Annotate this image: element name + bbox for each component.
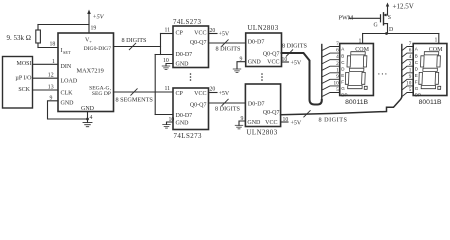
svg-text:A: A — [415, 47, 418, 52]
svg-text:Q0-Q7: Q0-Q7 — [190, 103, 207, 109]
svg-text:80011B: 80011B — [419, 99, 442, 106]
svg-text:DP: DP — [341, 93, 347, 98]
ellipsis between latches — [190, 73, 192, 81]
svg-text:8 DIGITS: 8 DIGITS — [282, 42, 307, 49]
svg-text:C: C — [415, 60, 419, 65]
svg-text:G: G — [341, 86, 345, 91]
svg-text:GND: GND — [176, 121, 190, 127]
bus 8 SEGMENTS from MAX7219 — [114, 91, 174, 93]
svg-text:1: 1 — [409, 67, 412, 73]
svg-text:CP: CP — [176, 91, 184, 97]
wire VCC top latch pin 20 +5V — [209, 33, 218, 35]
wire D0-D7 bottom latch — [155, 114, 173, 116]
pin 2 segment D left — [322, 66, 340, 70]
svg-text:DP: DP — [415, 93, 421, 98]
ground symbol bottom ULN — [235, 125, 243, 129]
svg-text:G: G — [415, 86, 419, 91]
ground symbol under MAX7219 — [83, 123, 92, 127]
svg-text:Q0-Q7: Q0-Q7 — [190, 40, 207, 46]
wire VCC bottom ULN pin 10 +5V — [281, 121, 288, 123]
bus top latch Q to ULN 8 DIGITS — [209, 42, 246, 44]
wire GND top ULN pin 9 — [237, 62, 246, 69]
wire drain — [384, 23, 388, 25]
pin 5 segment DP right — [402, 92, 413, 96]
svg-text:9: 9 — [241, 116, 244, 122]
COM rail wire — [363, 33, 439, 35]
wire VCC top ULN pin 10 +5V — [282, 61, 289, 63]
svg-text:CP: CP — [176, 31, 184, 37]
svg-text:20: 20 — [210, 87, 216, 93]
svg-text:9. 53k Ω: 9. 53k Ω — [7, 34, 31, 42]
svg-text:CLK: CLK — [61, 91, 74, 97]
power +5V rail top — [88, 14, 90, 33]
svg-text:9: 9 — [409, 74, 412, 80]
svg-text:B: B — [415, 53, 418, 58]
svg-text:VCC: VCC — [194, 31, 206, 37]
pin 10 segment G right — [402, 86, 413, 90]
svg-text:+5V: +5V — [291, 61, 302, 67]
IC U5 ULN2803 bottom — [245, 84, 280, 127]
display left 80011B — [340, 44, 374, 96]
svg-text:80011B: 80011B — [345, 99, 368, 106]
IC U1 MAX7219 — [58, 33, 114, 112]
segment tap bus right — [401, 45, 403, 98]
svg-text:19: 19 — [91, 26, 97, 32]
svg-text:7: 7 — [409, 41, 412, 47]
svg-text:74LS273: 74LS273 — [174, 133, 203, 139]
svg-text:D0-D7: D0-D7 — [248, 102, 265, 108]
segment tap bus left — [321, 45, 323, 101]
svg-text:D0-D7: D0-D7 — [176, 52, 193, 58]
svg-text:+5V: +5V — [219, 91, 230, 97]
svg-text:Q0-Q7: Q0-Q7 — [263, 110, 280, 116]
svg-text:SCK: SCK — [18, 87, 30, 93]
svg-text:. . .: . . . — [378, 69, 387, 77]
pin 7 segment A left — [322, 47, 340, 51]
svg-text:GND: GND — [247, 120, 261, 126]
svg-text:2: 2 — [409, 61, 412, 67]
svg-text:+5V: +5V — [93, 14, 105, 21]
svg-text:5: 5 — [409, 87, 412, 93]
ground symbol top ULN — [233, 69, 241, 73]
svg-text:VCC: VCC — [194, 91, 206, 97]
svg-text:VCC: VCC — [267, 60, 279, 66]
svg-text:20: 20 — [210, 28, 216, 34]
svg-text:VCC: VCC — [265, 120, 277, 126]
pin 6 segment B left — [322, 53, 340, 57]
svg-text:2: 2 — [336, 61, 339, 67]
resistor R1 9.53k — [37, 25, 39, 31]
svg-text:8 SEGMENTS: 8 SEGMENTS — [116, 97, 154, 104]
pin 6 segment B right — [402, 53, 413, 57]
svg-text:13: 13 — [48, 85, 54, 91]
svg-text:SET: SET — [63, 50, 71, 55]
ellipsis between ULNs — [261, 73, 263, 81]
svg-text:Q0-Q7: Q0-Q7 — [263, 52, 280, 58]
svg-text:9: 9 — [240, 57, 243, 63]
svg-text:+5V: +5V — [219, 32, 230, 38]
svg-text:DIG0-DIG7: DIG0-DIG7 — [84, 46, 112, 52]
bus bottom latch Q to ULN 8 SEGMENTS — [209, 102, 246, 104]
bus 8 DIGITS from MAX7219 — [114, 46, 161, 48]
wire vertical digit to CP — [160, 34, 162, 55]
microcontroller uP I/O box — [3, 57, 33, 109]
bus top ULN Q out 8 DIGITS — [282, 53, 322, 105]
svg-text:+5V: +5V — [291, 121, 302, 127]
svg-text:9: 9 — [50, 95, 53, 101]
svg-text:1: 1 — [336, 67, 339, 73]
svg-text:+: + — [89, 39, 92, 44]
svg-text:MAX7219: MAX7219 — [77, 68, 104, 75]
bus bottom ULN Q out 8 DIGITS to displays — [281, 97, 402, 115]
pin 1 segment E right — [402, 73, 413, 77]
wire +5V to resistor — [38, 24, 89, 26]
svg-text:ULN2803: ULN2803 — [248, 25, 279, 32]
wire PWM to gate — [349, 17, 381, 19]
svg-text:GND: GND — [176, 62, 190, 68]
svg-text:6: 6 — [409, 48, 412, 54]
wire MOSI to DIN — [33, 63, 59, 65]
wire GND top latch pin 10 — [166, 64, 173, 67]
svg-text:GND: GND — [248, 60, 262, 66]
svg-text:8 DIGITS: 8 DIGITS — [215, 106, 240, 113]
svg-text:D: D — [389, 27, 393, 33]
svg-text:DIN: DIN — [61, 64, 72, 70]
svg-text:F: F — [415, 80, 418, 85]
pin 5 segment DP left — [322, 92, 340, 96]
svg-text:10: 10 — [406, 81, 412, 87]
svg-text:GND: GND — [61, 101, 75, 107]
wire D0-D7 top latch — [155, 54, 173, 56]
svg-text:8 DIGITS: 8 DIGITS — [319, 117, 348, 124]
svg-text:74LS273: 74LS273 — [173, 19, 202, 26]
svg-text:C: C — [341, 60, 345, 65]
svg-text:4: 4 — [336, 54, 339, 60]
svg-text:ULN2803: ULN2803 — [247, 130, 278, 137]
display right 80011B — [413, 44, 447, 96]
svg-text:B: B — [341, 53, 344, 58]
wire VCC bottom latch pin 20 +5V — [209, 92, 218, 94]
svg-text:E: E — [415, 73, 418, 78]
pin 2 segment D right — [402, 66, 413, 70]
svg-text:A: A — [341, 47, 344, 52]
svg-text:MOSI: MOSI — [16, 61, 31, 67]
svg-text:F: F — [341, 80, 344, 85]
svg-text:+12.5V: +12.5V — [393, 3, 414, 11]
svg-text:D0-D7: D0-D7 — [176, 113, 193, 119]
svg-text:6: 6 — [336, 48, 339, 54]
wire GND bottom ULN pin 9 — [239, 121, 245, 125]
seven segment digit graphic right — [419, 52, 442, 90]
wire CP top latch pin 11 — [161, 33, 174, 35]
svg-text:10: 10 — [163, 58, 169, 64]
svg-text:18: 18 — [50, 42, 56, 48]
svg-text:D0-D7: D0-D7 — [248, 40, 265, 46]
wire source to +12.5V — [387, 6, 389, 16]
svg-text:µP I/O: µP I/O — [15, 76, 32, 82]
svg-text:8 DIGITS: 8 DIGITS — [216, 45, 241, 52]
svg-text:10: 10 — [283, 117, 289, 123]
svg-text:1: 1 — [435, 38, 438, 44]
svg-text:5: 5 — [336, 87, 339, 93]
junction drain rail — [385, 32, 388, 35]
wire vertical segment distribution — [154, 55, 156, 115]
pin 9 segment F left — [322, 79, 340, 83]
svg-text:1: 1 — [52, 59, 55, 65]
svg-text:4: 4 — [90, 115, 93, 121]
pin 10 segment G left — [322, 86, 340, 90]
IC U3 74LS273 bottom — [173, 88, 209, 130]
svg-text:10: 10 — [169, 117, 175, 123]
wire MAX GND pin 4 — [87, 112, 89, 123]
wire uP I/O to LOAD — [33, 77, 59, 79]
pin 9 segment F right — [402, 79, 413, 83]
svg-text:12: 12 — [48, 73, 54, 79]
seven segment digit graphic left — [345, 52, 368, 90]
svg-text:D: D — [415, 66, 419, 71]
svg-text:SEG DP: SEG DP — [92, 91, 111, 97]
svg-text:4: 4 — [409, 54, 412, 60]
wire COM drop left display pin 1 — [362, 34, 364, 44]
pin 1 segment E left — [322, 73, 340, 77]
ground symbol top latch — [162, 66, 170, 70]
svg-text:D: D — [341, 66, 345, 71]
svg-text:11: 11 — [165, 86, 171, 92]
pin 4 segment C left — [322, 60, 340, 64]
wire resistor to ISET pin 18 — [38, 47, 58, 49]
wire MAX GND pin 9 — [48, 101, 88, 119]
ground symbol bottom latch — [163, 125, 171, 129]
wire SCK to CLK — [33, 89, 59, 91]
svg-text:10: 10 — [282, 57, 288, 63]
wire COM drop right display pin 1 — [438, 34, 440, 44]
svg-text:7: 7 — [336, 41, 339, 47]
junction gnd — [86, 118, 89, 121]
wire GND bottom latch pin 10 — [167, 122, 174, 125]
svg-text:8 DIGITS: 8 DIGITS — [122, 37, 147, 44]
pin 7 segment A right — [402, 47, 413, 51]
svg-text:LOAD: LOAD — [61, 79, 78, 85]
svg-text:E: E — [341, 73, 344, 78]
svg-text:10: 10 — [334, 81, 340, 87]
pin 4 segment C right — [402, 60, 413, 64]
svg-text:9: 9 — [336, 74, 339, 80]
svg-text:11: 11 — [165, 28, 171, 34]
svg-text:S: S — [388, 15, 391, 21]
svg-text:G: G — [374, 23, 378, 29]
